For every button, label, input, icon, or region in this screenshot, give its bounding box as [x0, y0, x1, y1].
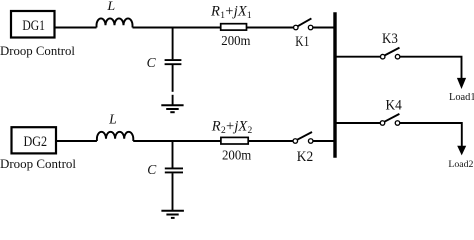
svg-text:jX: jX [232, 119, 248, 135]
label R1+jX1 [210, 4, 252, 21]
capacitor C2 plates [165, 167, 183, 169]
svg-text:K4: K4 [386, 98, 403, 114]
capacitor C1 lead lower [172, 65, 174, 92]
wire K3 to Load1 arrow [400, 57, 462, 78]
switch K4 [380, 121, 385, 126]
wire K2 to bus [313, 140, 333, 142]
capacitor C1 lead upper [172, 28, 174, 60]
svg-text:200m: 200m [221, 33, 251, 48]
capacitor C2 lead lower [172, 173, 174, 210]
wire K4 to Load2 arrow [400, 123, 462, 146]
svg-text:200m: 200m [222, 148, 252, 163]
svg-text:+: + [225, 4, 233, 20]
inductor L1 [97, 18, 133, 27]
wire DG2 to L2 [56, 140, 97, 142]
svg-text:K1: K1 [295, 34, 309, 50]
wire bus to K4 [337, 122, 381, 124]
capacitor C1 plates [165, 59, 182, 61]
ground (top) [161, 104, 183, 106]
svg-text:Droop Control: Droop Control [0, 156, 76, 171]
DG1 box [11, 11, 55, 38]
svg-text:C: C [147, 55, 157, 70]
svg-text:K3: K3 [382, 31, 398, 47]
svg-text:jX: jX [232, 4, 248, 20]
wire L1 to R1 [133, 27, 221, 29]
svg-text:2: 2 [248, 126, 253, 136]
arrow Load2 [457, 146, 466, 156]
svg-text:C: C [147, 162, 157, 177]
svg-text:Droop Control: Droop Control [0, 44, 76, 58]
svg-text:L: L [108, 111, 117, 126]
svg-text:K2: K2 [297, 149, 313, 165]
svg-text:1: 1 [247, 11, 252, 21]
ground (bottom) [161, 210, 184, 212]
wire DG1 to L1 [55, 27, 97, 29]
arrow Load1 [457, 78, 466, 89]
switch K1 [294, 25, 299, 30]
wire K1 to bus [313, 27, 334, 29]
switch K2 [293, 139, 298, 144]
resistor R1 [221, 24, 247, 30]
wire R1 to K1 [247, 27, 294, 29]
resistor R2 [221, 137, 248, 144]
wire L2 to R2 [133, 140, 221, 142]
svg-text:+: + [226, 119, 234, 135]
svg-text:L: L [106, 0, 115, 13]
svg-text:DG2: DG2 [24, 134, 48, 150]
bus bar [333, 12, 336, 158]
svg-text:DG1: DG1 [22, 18, 45, 34]
capacitor C2 lead upper [172, 141, 174, 168]
inductor L2 [97, 132, 133, 141]
wire bus to K3 [337, 56, 381, 58]
svg-text:R: R [211, 119, 221, 135]
DG2 box [12, 127, 57, 153]
svg-text:R: R [210, 4, 220, 20]
svg-text:Load2: Load2 [448, 159, 473, 170]
svg-text:Load1: Load1 [449, 92, 474, 103]
wire R2 to K2 [248, 140, 293, 142]
label R2+jX2 [211, 119, 253, 136]
switch K3 [380, 54, 385, 59]
